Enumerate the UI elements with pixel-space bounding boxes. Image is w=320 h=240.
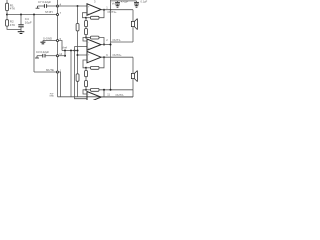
svg-text:3: 3 <box>94 0 96 4</box>
svg-text:OUT1-: OUT1- <box>113 38 121 42</box>
amp4 -in wire <box>83 90 87 94</box>
top right supply wire <box>111 0 137 2</box>
svg-text:Vref: Vref <box>62 46 67 50</box>
fb1 wire right riser <box>99 10 104 18</box>
wire ST-BY rail <box>7 14 58 16</box>
node junction C4 top <box>20 14 22 16</box>
capacitor C5 <box>115 2 120 4</box>
svg-text:11: 11 <box>107 93 110 97</box>
Vref riser from pin5 <box>59 41 63 51</box>
wire S-GND to pin 5 <box>43 40 58 42</box>
svg-text:+: + <box>88 6 90 9</box>
capacitor C6 stem <box>136 1 138 2</box>
svg-text:C3 0.22µF: C3 0.22µF <box>36 50 49 54</box>
ground C7 <box>36 6 40 8</box>
amp3 -in wire <box>83 60 87 68</box>
speaker SP1 riser bottom <box>132 27 134 42</box>
capacitor C3 <box>43 54 45 58</box>
svg-text:Vs: Vs <box>112 1 116 5</box>
svg-text:6: 6 <box>106 53 108 57</box>
resistor chain A lower <box>76 74 79 81</box>
wire mute horizontal <box>34 71 58 73</box>
svg-text:OUT2-: OUT2- <box>116 93 124 97</box>
resistor chain A upper <box>76 24 79 31</box>
op-amp U1 <box>87 4 101 15</box>
riser IN2 to rail <box>64 51 66 56</box>
node junction mute drop <box>33 14 35 16</box>
svg-text:14: 14 <box>59 52 62 56</box>
fb3 riser to out3 <box>99 57 104 68</box>
amp2 -in wire <box>83 38 87 42</box>
fb3 wire <box>86 67 91 69</box>
wire C3 to pin IN2 <box>45 55 58 57</box>
resistor fb2 <box>91 36 100 39</box>
riser amp2 +in <box>74 47 76 97</box>
wire bus to speaker1 bottom <box>111 41 134 43</box>
fb2 riser to out2 <box>99 38 104 45</box>
IC box bottom edge <box>58 96 134 98</box>
svg-text:-: - <box>88 41 89 44</box>
svg-text:7: 7 <box>60 11 62 15</box>
Vref rail <box>62 50 78 52</box>
svg-text:OUT1+: OUT1+ <box>108 10 117 14</box>
node vref-74 <box>74 50 76 52</box>
speaker SP2 drop top <box>132 57 134 73</box>
IC box right edge bus <box>110 0 112 90</box>
wire C3 left <box>37 55 42 57</box>
dropper mute-60 <box>59 71 61 73</box>
node out2 bus <box>110 44 112 46</box>
pin 14 circle <box>57 55 59 57</box>
node chainA top <box>77 5 79 7</box>
wire R1 to node <box>6 11 8 20</box>
pin 4 circle <box>57 5 59 7</box>
pin 5 circle <box>57 40 59 42</box>
wire C4 to ground <box>20 27 22 32</box>
resistor B1 <box>85 21 88 27</box>
node chainA in3 <box>77 54 79 56</box>
out4 wire <box>101 96 133 98</box>
svg-text:1: 1 <box>106 5 108 9</box>
resistor R1 <box>6 3 9 10</box>
svg-text:+: + <box>88 54 90 57</box>
wire amp3 +in <box>78 54 88 56</box>
wire mute vertical <box>33 15 35 73</box>
ground <box>18 32 25 34</box>
wire C7 to pin 4 <box>47 5 58 7</box>
capacitor C4 <box>18 25 23 27</box>
wire C4 stem <box>20 15 22 25</box>
svg-text:2: 2 <box>106 38 108 42</box>
resistor B3 <box>85 71 88 77</box>
pin 1 circle <box>57 71 59 73</box>
wire C7 left <box>38 5 45 7</box>
bias chain A vertical <box>77 6 79 24</box>
svg-text:0.1µF: 0.1µF <box>141 0 148 4</box>
node out4 bus <box>110 89 112 91</box>
out1 wire <box>101 9 133 11</box>
node out2 fb <box>103 44 105 46</box>
ground S-GND <box>40 41 45 44</box>
node junction R1/R2 <box>6 14 8 16</box>
svg-text:S-GND: S-GND <box>43 37 52 41</box>
capacitor C7 <box>44 4 46 8</box>
fb4 wire to bus <box>99 89 133 91</box>
ground C3 <box>35 56 39 58</box>
node out1 fb <box>103 9 105 11</box>
speaker SP2 riser bottom <box>132 79 134 90</box>
out4 riser speaker <box>132 90 134 97</box>
bias chain B lower <box>85 68 87 71</box>
resistor B4 <box>85 81 88 87</box>
node out3 fb <box>103 56 105 58</box>
svg-text:GND: GND <box>49 96 54 98</box>
dropper 71 to bottom <box>70 51 72 97</box>
svg-text:-: - <box>88 94 89 97</box>
wire R2 bottom <box>7 26 21 29</box>
svg-text:470µF: 470µF <box>121 0 129 4</box>
speaker SP1 <box>131 21 134 26</box>
node vref-65 <box>64 50 66 52</box>
IC box left edge <box>57 0 59 97</box>
resistor fb3 <box>91 66 100 69</box>
pin 7 circle <box>57 14 59 16</box>
wire supply drop to R1 <box>6 0 8 3</box>
fb4 riser to out4 <box>103 90 105 97</box>
resistor fb4 <box>91 88 100 91</box>
out2 wire <box>101 44 111 46</box>
node fb4 riser <box>103 89 105 91</box>
node fb4 <box>85 89 87 91</box>
wire amp2 +in <box>75 46 88 48</box>
resistor B2 <box>85 29 88 35</box>
amp1 -in wire <box>83 13 88 18</box>
resistor fb1 <box>91 16 100 19</box>
fb1 wire <box>86 17 91 19</box>
op-amp U3 <box>87 51 101 62</box>
out3 wire <box>101 56 133 58</box>
speaker SP2 <box>131 73 134 78</box>
fb4 wire <box>86 89 91 91</box>
svg-text:ST-BY: ST-BY <box>45 10 53 14</box>
svg-text:47K: 47K <box>10 23 15 27</box>
bias chain B upper <box>85 18 87 21</box>
svg-text:MUTE: MUTE <box>46 68 54 72</box>
node fb1 <box>85 17 87 19</box>
svg-text:OUT2+: OUT2+ <box>113 53 122 57</box>
svg-text:47K: 47K <box>10 7 15 11</box>
amp4 +in wire <box>75 97 88 99</box>
node fb2 <box>85 37 87 39</box>
capacitor C5 stem <box>117 1 119 2</box>
C6 ground <box>136 4 138 6</box>
svg-text:10µF: 10µF <box>25 20 32 24</box>
node vref-71 <box>70 50 72 52</box>
node in2-65 <box>64 55 66 57</box>
capacitor C6 <box>134 2 139 4</box>
speaker SP1 drop top <box>132 10 134 22</box>
node bus out1 <box>110 9 112 11</box>
svg-text:C7 0.22µF: C7 0.22µF <box>38 0 51 4</box>
wire IN2 inside <box>59 55 66 57</box>
op-amp U4 <box>87 92 101 103</box>
node fb3 <box>85 67 87 69</box>
fb2 wire <box>86 37 91 39</box>
top rail into amp1 <box>58 5 88 7</box>
op-amp U2 <box>87 39 101 50</box>
C5 ground <box>117 4 119 6</box>
node chainA vref <box>77 50 79 52</box>
resistor R2 <box>6 20 9 26</box>
